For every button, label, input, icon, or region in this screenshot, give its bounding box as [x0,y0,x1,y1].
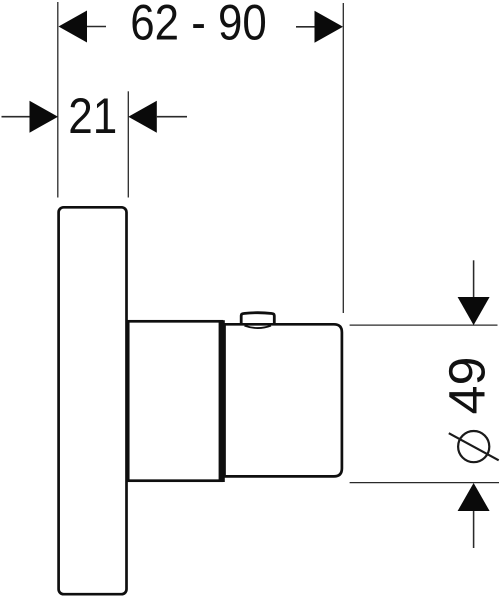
svg-text:49: 49 [439,357,496,415]
dimension 62-90 left tail [87,26,106,28]
dimension Ø49 top arrow (pointing down) [458,297,490,325]
dimension 21 left tail [2,116,30,118]
extension line left (plate left edge, x=58) [57,2,59,198]
divider ring between sleeve and handle [219,320,225,482]
svg-text:62 - 90: 62 - 90 [130,0,267,50]
dimension 21 right tail [157,116,187,118]
dimension Ø49 top tail [473,260,475,297]
extension line knob front face (x=343) [342,3,344,313]
dimension Ø49 bottom arrow (pointing up) [458,483,490,511]
dimension 62-90 right arrow [315,11,344,43]
extension line knob top (horizontal) [350,324,498,326]
dimension 62-90 left arrow [59,11,88,43]
button front silhouette arc [245,326,272,328]
dimension 21 left arrow [30,101,59,133]
svg-text:21: 21 [68,88,117,144]
dimension 21 right arrow [128,101,157,133]
sleeve (escutcheon section) [128,321,222,480]
diameter symbol circle [458,431,489,462]
extension line plate right edge (x=128) [127,91,129,197]
dimension 62-90 right tail [296,26,315,28]
diameter symbol slash [449,433,499,460]
extension line knob bottom (horizontal) [350,482,499,484]
dimension Ø49 bottom tail [473,511,475,548]
temperature stop button on knob top [241,313,274,323]
handle knob [225,324,342,476]
wall plate (side view) [59,207,127,594]
